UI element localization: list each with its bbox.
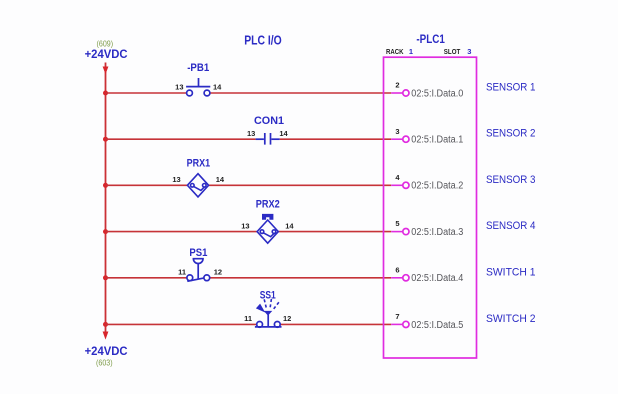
svg-text:13: 13 [172, 175, 180, 184]
svg-text:PRX1: PRX1 [187, 158, 211, 170]
svg-text:PLC I/O: PLC I/O [244, 32, 282, 47]
svg-text:PRX2: PRX2 [256, 198, 280, 210]
svg-text:SENSOR 1: SENSOR 1 [486, 82, 536, 94]
svg-text:1: 1 [409, 47, 413, 56]
svg-text:02:5:I.Data.1: 02:5:I.Data.1 [411, 135, 463, 146]
svg-text:5: 5 [395, 219, 399, 228]
svg-text:02:5:I.Data.5: 02:5:I.Data.5 [411, 320, 464, 331]
svg-text:(603): (603) [96, 358, 113, 368]
svg-text:02:5:I.Data.0: 02:5:I.Data.0 [411, 88, 464, 99]
svg-text:7: 7 [395, 312, 399, 321]
svg-text:02:5:I.Data.2: 02:5:I.Data.2 [411, 181, 463, 192]
svg-text:SENSOR 2: SENSOR 2 [486, 128, 536, 140]
svg-text:-PLC1: -PLC1 [416, 34, 445, 46]
svg-text:11: 11 [178, 268, 186, 277]
svg-text:SENSOR 3: SENSOR 3 [486, 174, 536, 186]
svg-text:13: 13 [241, 221, 249, 230]
svg-text:PS1: PS1 [189, 247, 207, 259]
svg-text:SLOT: SLOT [444, 47, 461, 56]
svg-text:3: 3 [395, 127, 399, 136]
svg-text:02:5:I.Data.3: 02:5:I.Data.3 [411, 227, 464, 238]
svg-text:12: 12 [214, 268, 222, 277]
svg-text:3: 3 [467, 47, 471, 56]
svg-text:+24VDC: +24VDC [85, 47, 128, 61]
svg-text:SS1: SS1 [260, 290, 276, 302]
svg-text:RACK: RACK [386, 47, 404, 56]
svg-text:CON1: CON1 [254, 115, 284, 127]
svg-text:+24VDC: +24VDC [85, 344, 128, 358]
svg-text:11: 11 [244, 314, 252, 323]
svg-text:02:5:I.Data.4: 02:5:I.Data.4 [411, 273, 464, 284]
svg-text:12: 12 [283, 314, 291, 323]
svg-text:SWITCH 1: SWITCH 1 [486, 266, 536, 278]
svg-text:-PB1: -PB1 [187, 62, 209, 74]
svg-text:14: 14 [213, 83, 222, 92]
svg-text:SENSOR 4: SENSOR 4 [486, 220, 536, 232]
svg-text:4: 4 [395, 173, 400, 182]
svg-text:13: 13 [247, 129, 255, 138]
svg-text:6: 6 [395, 265, 399, 274]
svg-text:SWITCH 2: SWITCH 2 [486, 313, 536, 325]
svg-text:13: 13 [175, 83, 183, 92]
svg-text:14: 14 [279, 129, 288, 138]
svg-text:14: 14 [216, 175, 225, 184]
svg-text:14: 14 [285, 221, 294, 230]
svg-text:2: 2 [395, 81, 399, 90]
